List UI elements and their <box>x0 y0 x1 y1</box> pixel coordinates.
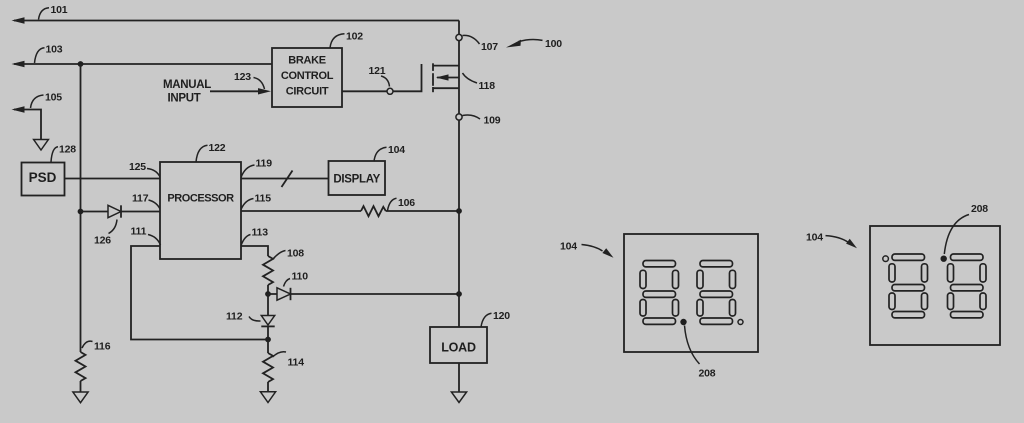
svg-text:103: 103 <box>46 44 63 56</box>
wire 111 <box>131 246 268 340</box>
label 109 <box>463 115 501 127</box>
label 104 (left figure) <box>560 241 614 258</box>
svg-text:INPUT: INPUT <box>167 93 200 105</box>
label 101 <box>39 4 68 20</box>
indicator dot 208 (figure B) <box>941 256 947 262</box>
label 122 <box>196 142 226 162</box>
label 128 <box>51 144 76 163</box>
display panel 104 (left figure) <box>624 234 758 352</box>
label 123 <box>234 71 265 89</box>
node junction on 103 <box>78 61 84 67</box>
svg-text:126: 126 <box>94 235 111 247</box>
decimal point (figure A) <box>738 320 743 325</box>
junction node 110/bus <box>456 291 462 297</box>
manual input label <box>163 79 211 105</box>
svg-text:116: 116 <box>94 341 111 353</box>
label 100 (figure pointer) <box>506 38 562 50</box>
svg-text:111: 111 <box>131 226 147 238</box>
wire to node <box>267 285 269 294</box>
svg-text:117: 117 <box>132 193 149 205</box>
label 116 <box>82 341 111 353</box>
label 120 <box>481 310 510 327</box>
diode 126 <box>81 205 161 217</box>
node 107 (open circle) <box>456 34 462 40</box>
svg-text:CIRCUIT: CIRCUIT <box>286 86 329 98</box>
digit 1 (figure A) <box>640 261 679 325</box>
label 126 <box>94 220 117 247</box>
ground (below 114) <box>260 392 275 403</box>
svg-text:115: 115 <box>255 193 272 205</box>
label 114 <box>273 352 305 369</box>
svg-text:119: 119 <box>256 158 273 170</box>
label 103 <box>35 44 63 64</box>
display panel 104 (right figure) <box>870 226 1000 345</box>
load box 120 <box>430 327 487 363</box>
svg-text:104: 104 <box>560 241 577 253</box>
wire 113 <box>241 246 268 256</box>
label 118 <box>463 73 496 92</box>
digit 2 (figure A) <box>697 261 736 325</box>
wire node 121 to gate <box>393 64 422 91</box>
label 112 <box>226 311 261 323</box>
svg-text:PSD: PSD <box>29 170 57 185</box>
label 104 <box>374 144 405 162</box>
wire 105 (output arrow with ground) <box>12 106 49 150</box>
label 208 (figure B) <box>944 203 988 254</box>
wire 103 <box>12 61 273 67</box>
transistor Q118 (FET) <box>433 63 459 92</box>
label 115 <box>241 193 271 210</box>
svg-text:109: 109 <box>484 115 501 127</box>
junction node below 108 <box>265 291 271 297</box>
label 105 <box>31 92 63 109</box>
digit 2 (figure B) <box>948 254 987 318</box>
svg-text:113: 113 <box>252 227 269 239</box>
label 108 <box>273 248 305 260</box>
svg-text:118: 118 <box>479 80 496 92</box>
junction node at diode branch <box>78 209 84 215</box>
node 109 (open circle) <box>456 114 462 120</box>
ground (below load) <box>451 392 466 403</box>
resistor 116 <box>76 352 86 392</box>
svg-text:123: 123 <box>234 71 251 83</box>
label 111 <box>131 226 161 246</box>
label 119 <box>241 158 272 178</box>
svg-text:110: 110 <box>292 271 309 283</box>
svg-text:104: 104 <box>388 144 405 156</box>
svg-text:107: 107 <box>481 41 498 53</box>
node 121 (open circle) <box>387 88 393 94</box>
decimal point (figure B) <box>883 256 889 262</box>
svg-text:101: 101 <box>51 4 68 16</box>
label 107 <box>463 35 499 53</box>
wire 123 (manual input arrow) <box>210 88 271 94</box>
svg-text:114: 114 <box>288 357 305 369</box>
indicator dot 208 (figure A) <box>680 319 686 325</box>
display U104 <box>329 161 386 195</box>
wire 101 (top supply line) <box>12 17 460 23</box>
digit 1 (figure B) <box>889 254 928 318</box>
wire 125 (PSD to processor) <box>65 178 161 180</box>
svg-text:208: 208 <box>699 368 716 380</box>
svg-text:CONTROL: CONTROL <box>281 70 334 82</box>
label 121 <box>369 65 390 87</box>
svg-text:125: 125 <box>129 161 146 173</box>
svg-text:MANUAL: MANUAL <box>163 79 211 91</box>
label 208 (figure A) <box>685 326 716 380</box>
processor U122 <box>160 162 241 259</box>
svg-text:PROCESSOR: PROCESSOR <box>167 193 234 205</box>
svg-text:BRAKE: BRAKE <box>288 55 326 67</box>
svg-text:106: 106 <box>398 197 415 209</box>
svg-text:DISPLAY: DISPLAY <box>333 174 380 186</box>
label 117 <box>132 193 161 211</box>
svg-text:100: 100 <box>545 38 562 50</box>
wire net 103 vertical branch <box>80 64 82 352</box>
resistor 108 <box>263 256 273 285</box>
junction node 111/112/114 <box>265 337 271 343</box>
svg-text:120: 120 <box>493 310 510 322</box>
label 104 (right figure) <box>806 232 857 249</box>
wire 119 (processor to display bus) <box>241 171 329 188</box>
svg-text:122: 122 <box>209 142 226 154</box>
svg-text:208: 208 <box>971 203 988 215</box>
label 102 <box>330 31 363 49</box>
brake control circuit U102 <box>272 48 342 107</box>
svg-text:121: 121 <box>369 65 386 77</box>
PSD box U128 <box>22 163 65 196</box>
wire brake out to node 121 <box>342 90 387 92</box>
main bus wire (right vertical) <box>458 21 460 328</box>
diode 110 <box>268 288 459 300</box>
resistor 114 <box>263 340 273 392</box>
svg-text:102: 102 <box>346 31 363 43</box>
svg-text:128: 128 <box>59 144 76 156</box>
svg-text:105: 105 <box>45 92 62 104</box>
svg-text:108: 108 <box>287 248 304 260</box>
svg-text:112: 112 <box>226 311 243 323</box>
ground (below 116) <box>73 392 88 403</box>
label 106 <box>388 197 416 211</box>
junction node 115/bus <box>456 208 462 214</box>
wire load to ground <box>458 363 460 392</box>
svg-text:104: 104 <box>806 232 823 244</box>
wire 115 with resistor 106 <box>241 206 459 216</box>
svg-text:LOAD: LOAD <box>441 341 476 355</box>
diode 112 <box>261 294 274 340</box>
label 110 <box>284 271 309 287</box>
label 125 <box>129 161 161 178</box>
label 113 <box>241 227 268 246</box>
